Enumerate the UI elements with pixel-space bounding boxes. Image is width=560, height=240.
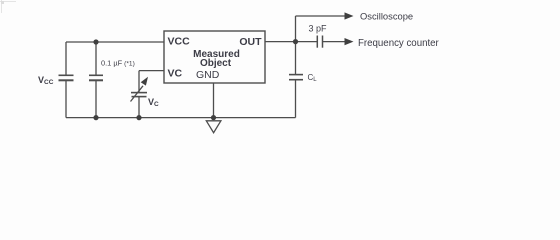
svg-text:VCC: VCC [168,36,191,48]
svg-text:VCC: VCC [38,75,54,86]
svg-text:3 pF: 3 pF [309,23,328,33]
svg-text:0.1 µF (*1): 0.1 µF (*1) [101,58,135,67]
svg-text:OUT: OUT [239,36,262,48]
svg-text:GND: GND [196,69,220,81]
svg-text:Oscilloscope: Oscilloscope [360,11,413,22]
svg-text:CL: CL [308,73,318,83]
svg-text:Frequency counter: Frequency counter [358,38,440,49]
svg-text:VC: VC [148,97,159,108]
svg-text:VC: VC [168,67,183,79]
svg-text:Object: Object [200,58,232,69]
